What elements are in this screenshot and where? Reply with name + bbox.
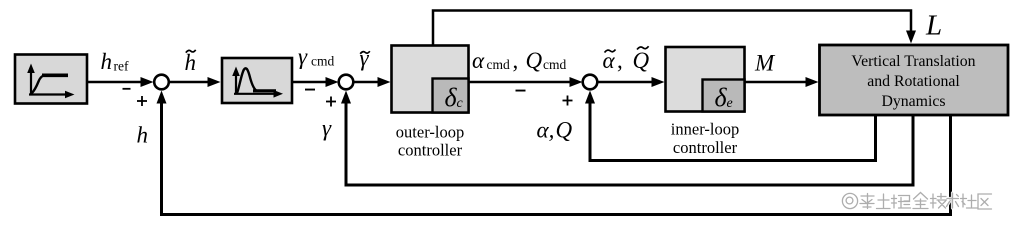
svg-text:e: e [727, 96, 733, 111]
svg-text:h: h [185, 50, 197, 75]
block A: altitude reference filter (saturation icon) [15, 55, 87, 104]
svg-text:cmd: cmd [487, 57, 510, 72]
wire: gamma feedback from dynamics to junction 2 [341, 91, 913, 186]
svg-text:h: h [101, 49, 113, 74]
plus sign at junction 2 [326, 97, 336, 107]
svg-text:c: c [457, 96, 464, 111]
watermark: juejin community [842, 193, 991, 210]
svg-text:cmd: cmd [311, 54, 334, 69]
minus sign at junction 1 [123, 88, 131, 90]
delta_e sub-block [703, 80, 745, 112]
plus sign at junction 1 [137, 96, 147, 106]
summing junction 3 [583, 75, 598, 90]
delta_c sub-block [433, 79, 469, 113]
svg-text:Q: Q [526, 48, 543, 73]
svg-text:outer-loop: outer-loop [396, 123, 464, 142]
svg-text:,: , [617, 48, 623, 73]
block B: command shaping filter (impulse response icon) [222, 58, 292, 103]
icon vertical axis [30, 71, 32, 95]
dynamics block: Vertical Translation and Rotational Dynamics [820, 45, 1009, 115]
wire: alpha, Q feedback from dynamics to junction 3 [585, 91, 876, 161]
svg-text:,: , [513, 48, 519, 73]
svg-text:M: M [754, 51, 776, 76]
wire: gamma_cmd from block B to summing junction 2 [293, 77, 339, 87]
svg-text:inner-loop: inner-loop [671, 120, 739, 139]
svg-text:h: h [137, 123, 149, 148]
wire: gamma~ from junction 2 to outer-loop controller [354, 77, 391, 87]
svg-text:γ: γ [360, 46, 370, 71]
svg-text:controller: controller [398, 141, 463, 160]
outer-loop controller block [392, 46, 469, 113]
svg-text:and Rotational: and Rotational [867, 73, 960, 90]
plus sign at junction 3 [563, 96, 573, 106]
icon impulse-response curve [237, 68, 257, 93]
svg-text:γ: γ [322, 116, 332, 141]
icon saturation curve [32, 76, 45, 94]
svg-text:Q: Q [633, 48, 650, 73]
svg-text:cmd: cmd [543, 57, 566, 72]
wire: alpha~, Q~ from junction 3 to inner-loop controller [598, 77, 665, 87]
svg-text:Vertical Translation: Vertical Translation [851, 53, 975, 70]
inner-loop controller block [666, 47, 745, 112]
wire: h feedback from dynamics to junction 1 [157, 91, 951, 215]
wire: h_ref input from block A to summing junction 1 [88, 77, 154, 87]
wire: L path from outer-loop controller top to dynamics block [433, 11, 916, 46]
svg-text:ref: ref [114, 59, 129, 74]
svg-text:α,: α, [537, 118, 555, 143]
icon horizontal axis [29, 93, 66, 95]
svg-text:α: α [472, 48, 485, 73]
svg-text:γ: γ [298, 44, 308, 69]
svg-text:L: L [925, 10, 942, 42]
summing junction 1 [154, 75, 169, 90]
wire: h~ from junction 1 to block B [170, 77, 221, 87]
icon horizontal axis [234, 93, 275, 95]
svg-text:controller: controller [673, 138, 738, 157]
svg-text:Dynamics: Dynamics [881, 93, 945, 110]
minus sign at junction 3 [516, 90, 526, 92]
svg-text:Q: Q [556, 118, 573, 143]
wire: alpha_cmd, Q_cmd from outer-loop controller to summing junction 3 [469, 77, 583, 87]
summing junction 2 [339, 75, 354, 90]
icon vertical axis [235, 74, 237, 94]
minus sign at junction 2 [305, 89, 315, 91]
wire: M from inner-loop controller to dynamics block [745, 77, 819, 87]
